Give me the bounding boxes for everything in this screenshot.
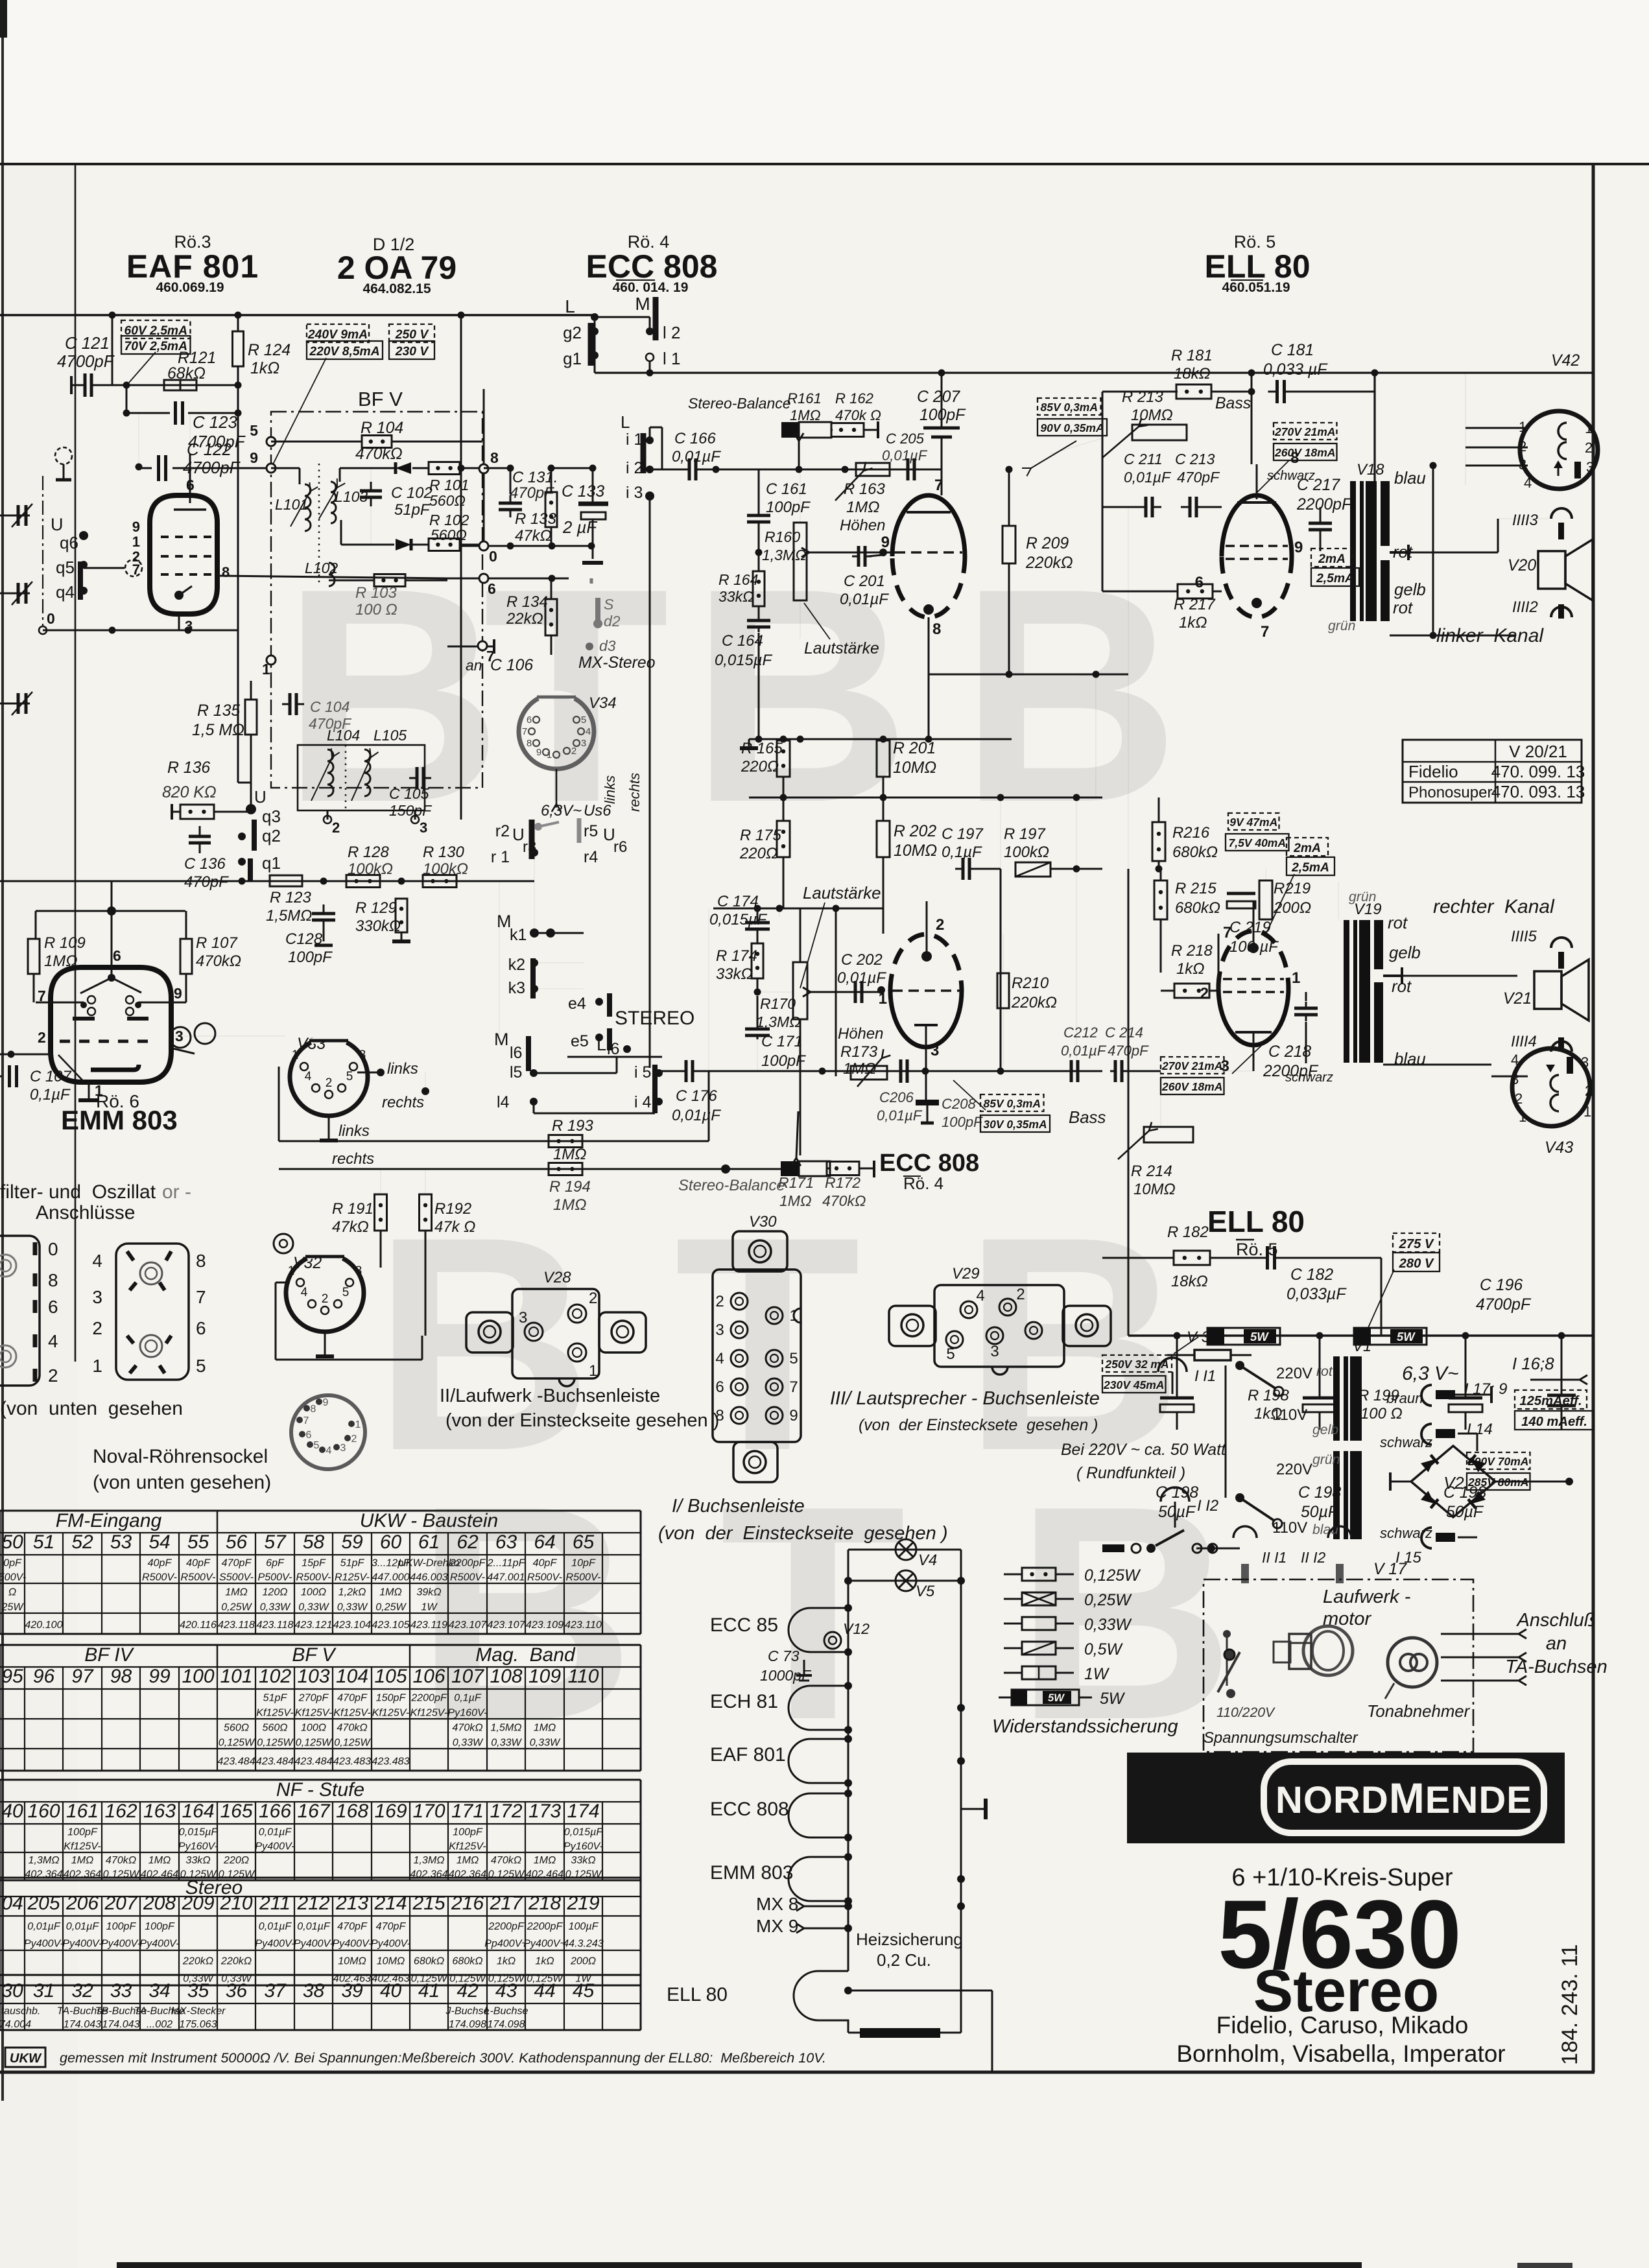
svg-text:58: 58 [303,1531,325,1553]
svg-text:ECC 808: ECC 808 [710,1799,789,1820]
svg-text:5W: 5W [1100,1690,1126,1708]
svg-text:99: 99 [148,1666,171,1687]
svg-text:213: 213 [335,1893,368,1914]
svg-text:Kf125V-: Kf125V- [64,1841,101,1852]
svg-text:7: 7 [303,1415,309,1426]
svg-text:107: 107 [451,1666,484,1687]
svg-text:42: 42 [457,1980,479,2002]
svg-text:Py160V-: Py160V- [178,1841,218,1852]
svg-text:0,25W: 0,25W [1084,1592,1132,1609]
svg-text:423.107: 423.107 [449,1619,487,1631]
svg-text:330kΩ: 330kΩ [355,917,401,935]
wires speaker V20 [1408,552,1498,554]
boxed 140mAeff [1515,1411,1594,1430]
antenna I12 [1161,1487,1189,1502]
svg-text:7: 7 [38,987,46,1004]
svg-text:57: 57 [264,1531,287,1553]
power rail [1128,1334,1593,1337]
wire v42 drop [1432,466,1434,635]
svg-text:0,033 µF: 0,033 µF [1263,361,1328,379]
svg-text:470kΩ: 470kΩ [337,1721,367,1733]
boxed 60V 2,5mA [121,320,191,338]
antenna I11 [1158,1358,1187,1372]
svg-text:101: 101 [220,1666,252,1687]
wire h y1040 under tube [929,674,1128,676]
svg-text:k2: k2 [508,956,525,974]
svg-text:90V 0,35mA: 90V 0,35mA [1040,421,1104,434]
svg-text:i 1: i 1 [626,431,643,449]
svg-text:rechts: rechts [332,1150,374,1168]
svg-text:33: 33 [110,1980,132,2002]
capacitor C128 [312,912,335,915]
svg-text:270V 21mA: 270V 21mA [1161,1059,1222,1072]
svg-text:R 175: R 175 [740,827,781,844]
svg-text:rot: rot [1388,914,1408,932]
svg-text:9V 47mA: 9V 47mA [1229,816,1277,829]
svg-text:460.069.19: 460.069.19 [156,280,224,295]
ground bus y1230 [749,797,1102,799]
svg-text:6: 6 [306,1430,312,1441]
svg-text:4: 4 [301,1286,308,1299]
svg-text:R 174: R 174 [716,947,757,965]
svg-text:rechter Kanal: rechter Kanal [1433,896,1555,917]
resistor R103 [374,574,405,587]
svg-text:110/220V: 110/220V [1216,1705,1275,1720]
svg-text:1kΩ: 1kΩ [1179,614,1207,632]
svg-text:ECC 85: ECC 85 [710,1614,778,1636]
svg-text:IIII3: IIII3 [1512,512,1539,529]
svg-text:0,01µF: 0,01µF [66,1920,100,1932]
boxed 2,5mA b [1287,857,1335,875]
svg-text:8: 8 [48,1270,58,1290]
svg-text:V42: V42 [1551,352,1580,370]
svg-text:280 V: 280 V [1399,1257,1434,1271]
svg-text:TA-Buchsen: TA-Buchsen [1505,1657,1607,1677]
svg-text:2200pF: 2200pF [1296,496,1353,514]
capacitor C196 sym [1547,1394,1576,1397]
svg-text:R 129: R 129 [355,899,397,917]
svg-text:0,33W: 0,33W [337,1601,368,1612]
wire EMM top node [111,881,113,911]
boxed 70V 2,5mA [121,336,191,354]
svg-text:Us6: Us6 [584,802,611,820]
svg-text:R 182: R 182 [1167,1223,1209,1241]
svg-text:3: 3 [715,1321,724,1339]
switch q2 q1 [252,820,257,851]
svg-text:C 121: C 121 [65,335,110,353]
svg-text:R500V-: R500V- [527,1572,562,1583]
svg-text:3: 3 [355,1264,362,1278]
svg-text:4: 4 [1524,475,1532,491]
svg-text:120Ω: 120Ω [262,1586,287,1598]
svg-text:1: 1 [879,990,887,1008]
svg-text:V12: V12 [843,1620,870,1637]
legend 0,125W [1004,1574,1022,1576]
svg-text:Phonosuper: Phonosuper [1408,784,1492,801]
svg-text:1,3MΩ: 1,3MΩ [762,547,807,563]
capacitor C198 b [1303,1397,1336,1400]
svg-text:212: 212 [296,1893,329,1914]
svg-text:Kf125V-: Kf125V- [295,1707,333,1718]
svg-text:C 207: C 207 [917,388,960,406]
svg-text:R 136: R 136 [167,759,210,777]
terminal right [961,1808,986,1810]
svg-text:5W: 5W [1048,1692,1065,1704]
svg-text:420.100: 420.100 [25,1619,62,1631]
svg-text:5: 5 [196,1356,206,1376]
svg-text:0,125W: 0,125W [257,1736,294,1748]
svg-text:l4: l4 [497,1093,510,1111]
svg-text:205: 205 [27,1893,60,1914]
svg-text:1: 1 [1584,1104,1591,1120]
svg-text:40pF: 40pF [186,1557,211,1569]
svg-text:T: T [720,1443,906,1783]
svg-text:0,2 Cu.: 0,2 Cu. [877,1950,931,1970]
switch d2 gray [590,578,593,584]
svg-text:grün: grün [1349,890,1376,904]
svg-text:R 107: R 107 [196,934,238,952]
svg-text:470pF: 470pF [309,715,352,732]
svg-text:6: 6 [527,715,532,726]
svg-text:51: 51 [33,1531,54,1553]
svg-text:110V: 110V [1272,1406,1307,1424]
pointer 70V [129,352,156,383]
svg-text:140 mAeff.: 140 mAeff. [1521,1415,1587,1429]
svg-text:C 102: C 102 [391,484,433,502]
svg-text:an: an [1546,1633,1567,1654]
wire v x1660 [1076,797,1077,869]
legend 0,33W [1004,1623,1022,1625]
wire v x1690 [1095,674,1097,797]
svg-text:C 181: C 181 [1271,342,1314,359]
svg-text:R 194: R 194 [549,1178,591,1196]
svg-text:8: 8 [311,1404,316,1415]
svg-text:M: M [635,294,650,314]
svg-text:C 211: C 211 [1124,451,1163,467]
svg-text:(von unten gesehen): (von unten gesehen) [93,1472,271,1493]
svg-text:V43: V43 [1545,1139,1573,1157]
svg-text:44.3.243: 44.3.243 [563,1938,604,1950]
svg-text:4: 4 [715,1350,724,1367]
svg-text:Bass: Bass [1069,1109,1106,1127]
svg-text:Py400V-: Py400V- [255,1841,294,1852]
svg-text:(von unten gesehen: (von unten gesehen [0,1398,183,1419]
svg-text:IIII4: IIII4 [1511,1033,1537,1050]
svg-text:500V-: 500V- [0,1572,26,1583]
svg-text:austauschb.: austauschb. [0,2005,40,2016]
svg-text:206: 206 [65,1893,99,1914]
wire y1340 right [1102,868,1252,869]
lamp V4 [848,1549,961,1551]
svg-text:100 Ω: 100 Ω [355,601,397,619]
capacitor C104 [289,693,292,715]
svg-text:85V 0,3mA: 85V 0,3mA [1040,401,1098,414]
heater bus left [848,1550,849,1971]
boxed 90V 0,35mA [1038,419,1107,436]
boxed 2mA [1311,549,1353,567]
svg-text:270pF: 270pF [298,1692,329,1703]
wire v x1021 [661,469,663,470]
wire v x1543 [1000,797,1001,869]
boxed 85V03mA b [980,1094,1044,1111]
svg-text:links: links [387,1060,418,1078]
svg-text:2: 2 [1585,1083,1593,1099]
left frame line [75,164,77,1362]
svg-text:18kΩ: 18kΩ [1174,365,1211,383]
svg-text:62: 62 [457,1531,479,1553]
svg-text:0,01µF: 0,01µF [27,1920,61,1932]
svg-text:100pF: 100pF [288,949,333,966]
boxed 30V035mA b [980,1115,1050,1132]
svg-text:i 2: i 2 [626,459,643,477]
connector plate middle [116,1244,189,1380]
svg-text:470pF: 470pF [376,1920,407,1932]
svg-text:160: 160 [27,1801,60,1822]
svg-text:423.119: 423.119 [410,1619,447,1631]
svg-text:9: 9 [536,747,541,758]
svg-text:0,01µF: 0,01µF [1124,469,1172,486]
boxed 280V [1393,1253,1440,1271]
capacitor C105 [416,767,419,789]
svg-text:Py400V~: Py400V~ [523,1938,566,1950]
svg-text:Py400V-: Py400V- [371,1938,410,1950]
connector plate left [0,1236,40,1386]
svg-text:33kΩ: 33kΩ [718,588,754,605]
svg-text:C 166: C 166 [674,430,716,447]
svg-text:R 123: R 123 [270,889,311,906]
capacitor C171 [745,1028,770,1031]
svg-text:167: 167 [297,1801,330,1822]
resistor R101 [429,462,460,475]
svg-text:5W: 5W [1397,1330,1416,1343]
svg-text:53: 53 [110,1531,132,1553]
svg-text:(von der Einsteckseite gesehen: (von der Einsteckseite gesehen ) [445,1410,719,1431]
svg-text:MX 9: MX 9 [756,1916,798,1936]
svg-text:ELL 80: ELL 80 [1207,1205,1305,1238]
svg-text:R 218: R 218 [1171,942,1213,960]
svg-text:r4: r4 [584,848,598,866]
svg-text:100pF: 100pF [145,1920,175,1932]
svg-text:Fidelio: Fidelio [1408,762,1458,781]
svg-text:1MΩ: 1MΩ [148,1854,171,1866]
svg-text:34: 34 [148,1980,170,2002]
svg-text:Kf125V-: Kf125V- [410,1707,448,1718]
wire v x2120 mid [1381,1258,1382,1336]
svg-text:162: 162 [104,1801,137,1822]
svg-text:2,5mA: 2,5mA [1316,572,1354,585]
legend 0,25W [1004,1598,1022,1600]
svg-text:links: links [602,775,618,804]
boxed 2mA b [1287,838,1328,856]
svg-text:2200pF: 2200pF [449,1557,486,1569]
svg-text:ECC 808: ECC 808 [879,1150,979,1177]
svg-text:3: 3 [359,1048,366,1062]
svg-text:V 17: V 17 [1373,1561,1407,1578]
page left edge scan line [1,0,4,2101]
svg-text:9: 9 [881,534,890,551]
svg-text:211: 211 [259,1893,291,1914]
svg-text:6: 6 [1195,574,1204,591]
svg-text:10pF: 10pF [571,1557,596,1569]
boxed 125mAeff [1515,1390,1587,1409]
boxed 250V32mA [1102,1355,1172,1372]
svg-text:2: 2 [326,1076,333,1090]
balance2 wire [648,1168,781,1169]
svg-text:220kΩ: 220kΩ [182,1955,213,1967]
svg-text:100: 100 [182,1666,214,1687]
svg-text:II/Laufwerk -Buchsenleiste: II/Laufwerk -Buchsenleiste [440,1386,660,1406]
svg-text:04: 04 [1,1893,23,1914]
left ch cathode bus [749,738,1012,740]
svg-text:e5: e5 [571,1032,589,1050]
boxed 270V 21mA [1274,423,1337,440]
svg-text:3: 3 [185,618,193,634]
resistor R109 [28,939,40,974]
pickup Tonabnehmer [1388,1638,1437,1687]
svg-text:MX-Stecker: MX-Stecker [171,2005,226,2016]
svg-text:8: 8 [196,1251,206,1271]
svg-text:1MΩ: 1MΩ [553,1196,586,1214]
svg-text:40pF: 40pF [148,1557,172,1569]
svg-text:FM-Eingang: FM-Eingang [56,1510,162,1531]
svg-text:C 161: C 161 [766,480,807,498]
svg-text:Anschluß: Anschluß [1516,1610,1596,1631]
svg-text:R 134: R 134 [506,593,548,611]
svg-text:C212: C212 [1063,1024,1098,1041]
bridge rectifier V2 [1411,1446,1495,1517]
wires V32 [276,1282,290,1284]
svg-text:0: 0 [47,610,55,627]
svg-text:C 171: C 171 [761,1033,803,1050]
svg-text:560Ω: 560Ω [262,1721,287,1733]
svg-text:5: 5 [789,1350,798,1367]
pot R214 [1144,1127,1193,1142]
svg-text:1: 1 [355,1419,361,1430]
svg-text:V29: V29 [952,1265,980,1282]
resistor R172 [827,1162,859,1175]
svg-text:blau: blau [1394,1050,1426,1069]
svg-text:230 V: 230 V [395,345,430,359]
svg-text:i 3: i 3 [626,484,643,502]
svg-text:4700pF: 4700pF [1476,1296,1532,1314]
right area verticals [1128,507,1129,869]
svg-text:51pF: 51pF [263,1692,288,1703]
svg-text:260V 18mA: 260V 18mA [1274,446,1335,459]
svg-text:R 181: R 181 [1171,347,1213,364]
svg-text:100pF: 100pF [766,499,811,516]
svg-text:e4: e4 [568,995,586,1013]
svg-text:161: 161 [66,1801,99,1822]
svg-text:9: 9 [789,1407,798,1424]
svg-text:50: 50 [1,1531,23,1553]
svg-text:1MΩ: 1MΩ [71,1854,94,1866]
svg-text:220V: 220V [1276,1365,1312,1382]
main bus right top [595,372,1593,373]
svg-text:0,1µF: 0,1µF [30,1086,71,1104]
svg-text:10MΩ: 10MΩ [1131,407,1173,424]
svg-text:2mA: 2mA [1318,552,1346,566]
svg-text:ELL 80: ELL 80 [667,1984,728,2005]
svg-text:10MΩ: 10MΩ [377,1955,405,1967]
svg-text:2: 2 [715,1293,724,1310]
svg-text:100pF: 100pF [761,1052,806,1070]
switch in V17 [1226,1634,1228,1686]
svg-text:174.004: 174.004 [0,2018,31,2030]
svg-text:8: 8 [490,449,499,466]
capacitor C123 [174,401,177,425]
svg-text:R210: R210 [1012,975,1049,992]
svg-text:10MΩ: 10MΩ [1133,1181,1176,1198]
svg-text:UKW: UKW [10,2051,42,2066]
wire x367 to R136 row [237,630,239,783]
svg-text:1kΩ: 1kΩ [250,360,279,377]
svg-text:R170: R170 [760,995,796,1012]
svg-text:U: U [254,787,267,807]
svg-text:Mag. Band: Mag. Band [475,1644,576,1666]
svg-text:100 Ω: 100 Ω [1360,1405,1403,1423]
svg-text:0,1µF: 0,1µF [454,1692,482,1703]
svg-text:7: 7 [934,477,943,494]
svg-text:ECH 81: ECH 81 [710,1691,778,1712]
svg-text:0,015µF: 0,015µF [179,1826,219,1838]
svg-text:184. 243. 11: 184. 243. 11 [1558,1944,1582,2065]
capacitor C122 [157,455,160,481]
wires to V42 [1465,427,1528,429]
svg-text:3: 3 [581,738,586,749]
svg-text:Kf125V-: Kf125V- [333,1707,371,1718]
wire x1093 up [708,1071,710,1141]
svg-text:5: 5 [250,422,258,439]
svg-text:blau: blau [1394,469,1426,488]
svg-text:1MΩ: 1MΩ [779,1192,811,1209]
svg-text:0,125W: 0,125W [296,1736,333,1748]
svg-text:R219: R219 [1274,880,1311,897]
svg-text:(von der Einstecksete gesehe: (von der Einstecksete gesehen ) [859,1417,1098,1434]
svg-text:208: 208 [143,1893,176,1914]
wire grun v19 [1338,882,1339,920]
svg-text:1MΩ: 1MΩ [457,1854,479,1866]
svg-text:63: 63 [495,1531,517,1553]
svg-text:NORDMENDE: NORDMENDE [1275,1774,1532,1822]
boxed 9V47mA [1228,813,1279,830]
wire q5 to tube [84,567,125,569]
svg-text:1: 1 [589,1362,597,1380]
tube EAF801 [150,495,217,614]
sheet right border [1592,164,1595,2072]
svg-text:2mA: 2mA [1293,842,1321,855]
table BF IV / BF V / Mag. Band [0,1644,641,1646]
capacitor C164 [747,619,770,622]
svg-text:an: an [466,657,482,674]
svg-text:470kΩ: 470kΩ [452,1721,482,1733]
balance arrow [798,441,800,469]
node 6 row [479,574,488,583]
svg-text:M: M [494,1030,509,1049]
svg-text:270V 21mA: 270V 21mA [1274,425,1335,438]
svg-text:22kΩ: 22kΩ [506,610,543,628]
svg-text:51pF: 51pF [340,1557,365,1569]
svg-text:R216: R216 [1172,824,1210,842]
svg-text:102: 102 [259,1666,291,1687]
svg-text:2: 2 [1200,985,1209,1002]
svg-text:0,33W: 0,33W [453,1736,484,1748]
svg-text:C 201: C 201 [844,573,885,590]
wire v x711 HT [460,315,462,820]
svg-text:( Rundfunkteil ): ( Rundfunkteil ) [1076,1465,1185,1482]
svg-text:0,033µF: 0,033µF [1287,1286,1347,1303]
svg-text:423.484: 423.484 [217,1755,255,1767]
svg-text:g2: g2 [563,323,582,342]
